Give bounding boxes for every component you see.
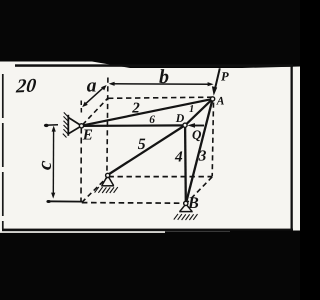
ink blob left end of c top tick	[44, 124, 49, 127]
member 3 A-B	[186, 100, 212, 202]
svg-text:P: P	[221, 70, 229, 84]
dashed vertical below E	[80, 128, 82, 202]
dashed front floor edge	[82, 202, 185, 205]
scanned page background	[0, 62, 300, 232]
dashed floor depth edge right	[187, 177, 212, 203]
svg-text:D: D	[175, 111, 185, 125]
svg-text:B: B	[187, 194, 199, 212]
bottom scanner band	[0, 233, 300, 300]
frame top line	[15, 64, 293, 67]
pin support at B	[174, 205, 198, 220]
node pin left	[106, 173, 110, 177]
force P arrow at A	[212, 68, 220, 96]
dashed vertical through corner down to left pin	[107, 78, 108, 176]
dashed extension above E	[80, 101, 82, 115]
frame right line	[291, 65, 293, 230]
dashed horizontal top back edge to A	[108, 97, 212, 98]
dimension b line with arrows	[109, 82, 214, 87]
member 6 E-D	[82, 124, 184, 127]
svg-text:5: 5	[138, 136, 146, 153]
node D	[183, 123, 187, 127]
svg-text:20: 20	[14, 76, 37, 98]
dashed edge E to top corner (depth)	[83, 98, 108, 125]
svg-text:E: E	[82, 126, 93, 143]
node B	[184, 201, 188, 205]
member 1 D-A	[186, 99, 212, 124]
dashed back floor edge	[109, 176, 213, 178]
ink blob left end of c bottom tick	[46, 200, 50, 203]
svg-text:2: 2	[131, 100, 140, 116]
member 2 E-A	[82, 99, 212, 126]
top scanner band dip	[92, 62, 300, 69]
svg-text:4: 4	[174, 149, 183, 166]
svg-text:1: 1	[189, 104, 194, 115]
frame bottom line	[2, 229, 293, 232]
dimension c top tick	[45, 124, 59, 126]
member 4 D-B	[184, 127, 187, 202]
svg-text:b: b	[159, 66, 169, 88]
dimension c line with arrows	[51, 126, 56, 199]
dimension c bottom tick	[47, 200, 82, 202]
svg-text:a: a	[87, 76, 97, 97]
svg-text:6: 6	[149, 114, 155, 126]
member 5 pin-D	[109, 126, 184, 174]
frame left line	[2, 74, 4, 229]
svg-text:A: A	[216, 95, 225, 107]
svg-text:3: 3	[198, 148, 207, 165]
force Q arrow at D	[187, 123, 204, 128]
pin support left (under member 5)	[95, 177, 118, 193]
wall support at E	[63, 112, 81, 137]
svg-text:Q: Q	[192, 127, 202, 142]
node A	[211, 97, 215, 101]
node E	[79, 124, 83, 128]
dashed vertical below A	[212, 103, 213, 177]
dashed floor depth edge left	[82, 178, 107, 203]
dimension a line with arrows	[82, 85, 106, 107]
